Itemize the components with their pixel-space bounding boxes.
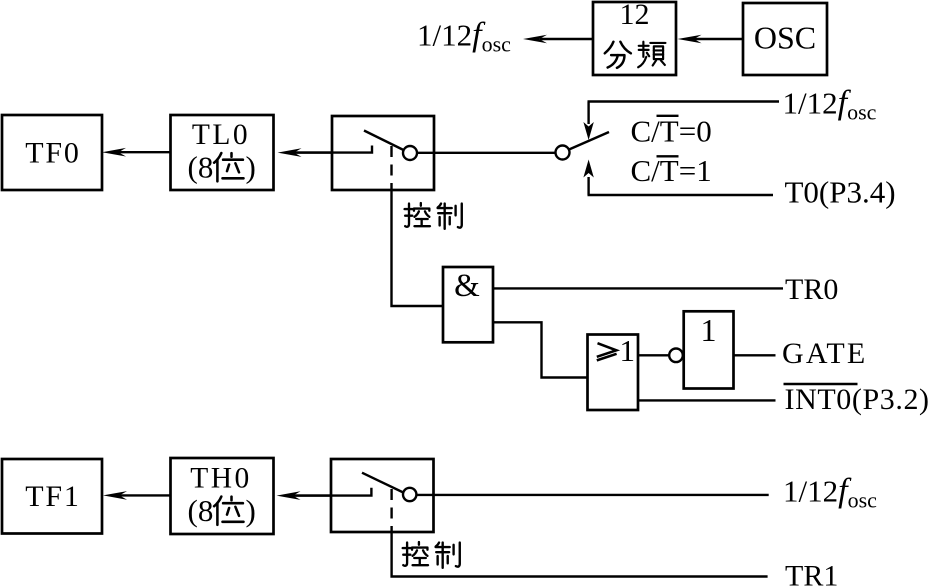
- wire switch2 to TH0: [291, 494, 331, 496]
- svg-text:TR0: TR0: [785, 273, 838, 306]
- arrowhead fosc output: [523, 35, 547, 44]
- svg-text:GATE: GATE: [782, 337, 867, 370]
- label C/T=1: [631, 153, 712, 188]
- svg-text:&: &: [454, 268, 480, 304]
- register TH0 box: [171, 458, 274, 534]
- wire TR0: [493, 287, 783, 289]
- switch1 input wire with contact tick: [292, 146, 372, 153]
- wire switch1 to TL0: [292, 151, 332, 153]
- oscillator OSC box: [743, 3, 827, 75]
- selector pole circle: [556, 146, 570, 160]
- wire and-gate to or-gate: [493, 322, 588, 377]
- arrowhead into TH0: [277, 491, 301, 500]
- arrowhead into TF1: [103, 491, 127, 500]
- switch1 dashed control line: [390, 146, 392, 190]
- svg-text:T0(P3.4): T0(P3.4): [785, 175, 896, 210]
- wire OSC to divider: [694, 38, 743, 40]
- svg-text:C/T=1: C/T=1: [631, 153, 712, 188]
- wire INT0: [638, 399, 776, 401]
- svg-text:TR1: TR1: [785, 560, 838, 586]
- svg-text:TF0: TF0: [25, 137, 80, 170]
- label 控 row1: [405, 203, 430, 227]
- label 控 row2: [403, 542, 428, 566]
- svg-text:1: 1: [620, 333, 636, 368]
- svg-text:TH0: TH0: [190, 463, 252, 495]
- or-gate ≥1 label: [597, 333, 635, 368]
- selector arm: [569, 132, 609, 150]
- switch1 pole circle: [403, 146, 417, 160]
- divider box 12分频: [593, 2, 676, 75]
- label 分: [605, 42, 631, 68]
- control switch1 box: [332, 116, 434, 190]
- arrowhead up onto selector: [583, 160, 593, 178]
- register TL0 box: [171, 115, 274, 190]
- register TF0 box: [2, 115, 102, 190]
- label 制 row1: [438, 204, 462, 229]
- wire TL0 to TF0: [118, 151, 170, 153]
- svg-text:TL0: TL0: [192, 119, 250, 151]
- switch1 arm: [364, 131, 404, 151]
- arrowhead into TL0: [278, 148, 302, 157]
- svg-text:TF1: TF1: [25, 480, 80, 513]
- buffer 1 box: [684, 311, 734, 388]
- arrowhead into TF0: [102, 148, 126, 157]
- wire fosc input top: [588, 100, 780, 102]
- or-gate U2 box: [588, 335, 639, 411]
- label 频: [638, 42, 665, 68]
- wire or-gate to bubble: [638, 354, 669, 356]
- svg-text:12: 12: [620, 0, 650, 31]
- wire T0 input bottom: [588, 194, 774, 196]
- wire GATE: [734, 354, 776, 356]
- label C/T=0: [631, 114, 712, 149]
- control switch2 box: [331, 459, 434, 532]
- control wire down from switch1: [392, 190, 444, 306]
- svg-text:C/T=0: C/T=0: [631, 114, 712, 149]
- selector bottom contact wire: [587, 177, 589, 195]
- wire switch1 to selector: [417, 152, 556, 154]
- label (8位) row2: [188, 493, 256, 528]
- inverter bubble: [669, 349, 683, 363]
- wire TH0 to TF1: [119, 494, 170, 496]
- switch2 arm: [362, 473, 403, 493]
- label 制 row2: [436, 543, 460, 568]
- switch2 input wire with contact tick: [291, 488, 371, 496]
- svg-text:): ): [246, 150, 256, 185]
- arrowhead into divider: [678, 35, 702, 44]
- register TF1 box: [2, 459, 102, 534]
- svg-text:): ): [246, 493, 256, 528]
- svg-text:(8: (8: [188, 493, 214, 528]
- arrowhead down onto selector: [583, 122, 593, 140]
- wire divider to fosc output: [540, 38, 593, 40]
- svg-text:INT0(P3.2): INT0(P3.2): [785, 383, 930, 416]
- and-gate U1 box: [443, 267, 493, 342]
- switch2 pole circle: [403, 488, 416, 501]
- wire switch2 to fosc: [416, 494, 768, 496]
- svg-text:1: 1: [701, 312, 717, 348]
- control wire TR1: [392, 532, 768, 577]
- label (8位): [188, 150, 256, 185]
- svg-text:(8: (8: [188, 150, 214, 185]
- svg-text:OSC: OSC: [754, 20, 816, 56]
- selector top contact wire: [587, 102, 589, 125]
- switch2 dashed control line: [390, 489, 392, 532]
- label INT0(P3.2) with overline: [784, 383, 930, 416]
